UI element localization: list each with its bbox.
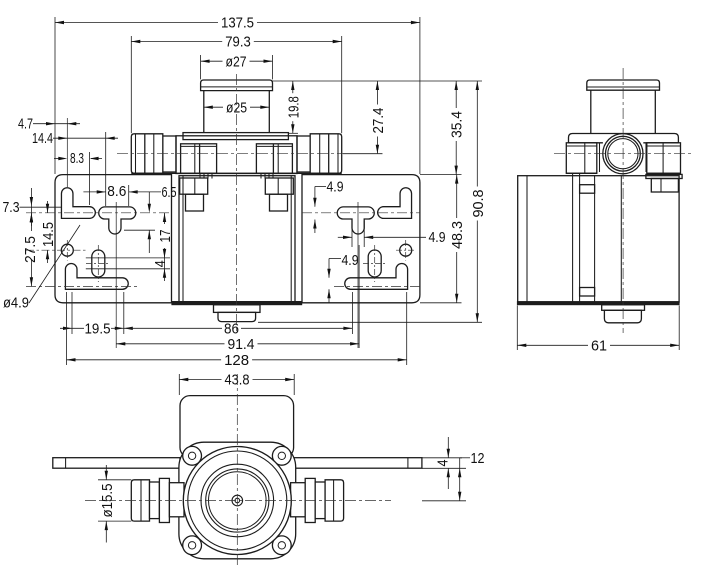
svg-text:27.4: 27.4	[370, 108, 387, 134]
right lower slot centerline	[334, 286, 420, 288]
svg-text:7.3: 7.3	[3, 199, 20, 216]
left bolt	[180, 178, 208, 211]
left lower slot centerline	[26, 286, 140, 288]
svg-text:ø4.9: ø4.9	[3, 295, 29, 312]
right hole crosslines	[396, 240, 416, 261]
dimension 91.4	[116, 245, 359, 353]
svg-text:19.8: 19.8	[285, 96, 302, 118]
dimension 8.3	[54, 150, 102, 205]
svg-text:27.5: 27.5	[22, 236, 39, 263]
dimension 8.6	[83, 183, 161, 206]
dimension 43.8	[179, 372, 294, 395]
dimension 19.5	[60, 292, 124, 338]
left hose barb	[131, 134, 163, 174]
side manifold body	[569, 134, 679, 143]
svg-text:ø27: ø27	[226, 53, 247, 70]
dimension 4 bottom	[422, 437, 466, 489]
dimension 48.3	[420, 175, 466, 303]
dimension 7.3	[3, 188, 62, 226]
svg-text:48.3: 48.3	[449, 221, 466, 249]
side center tabs	[600, 143, 647, 172]
svg-text:19.5: 19.5	[85, 321, 111, 338]
front view vertical centerline	[236, 74, 238, 331]
side manifold bottom edge	[566, 172, 680, 174]
left bracket upper L-slot	[61, 188, 95, 219]
svg-text:14.4: 14.4	[32, 130, 53, 147]
right bracket lower L-slot	[345, 263, 408, 289]
left bracket oval slot	[92, 250, 105, 277]
left oval centerlines	[86, 245, 110, 282]
motor body	[179, 176, 295, 304]
left bracket T-slot	[99, 207, 136, 234]
dimension 19.8	[285, 81, 302, 133]
dimension 86	[124, 292, 353, 338]
motor bottom cap	[214, 305, 261, 322]
left clamp block	[181, 144, 217, 174]
left hole crosslines	[26, 118, 87, 261]
side view vertical centerline	[622, 68, 624, 333]
bottom right barb	[291, 478, 344, 522]
head inner ring inner	[206, 469, 269, 532]
svg-text:12: 12	[471, 450, 485, 467]
dimension 35.4	[420, 81, 466, 175]
dimension 4.9 lower-arm	[327, 252, 358, 303]
dimension 27.5	[22, 213, 39, 286]
svg-text:35.4: 35.4	[449, 111, 466, 138]
head rim circle	[188, 451, 287, 550]
dimension 128	[67, 292, 407, 369]
svg-text:4.9: 4.9	[429, 229, 446, 246]
bottom right flange bar	[294, 458, 422, 469]
barb centerline	[117, 153, 382, 155]
svg-text:14.5: 14.5	[40, 222, 57, 247]
right oval centerlines	[363, 245, 387, 282]
right hose barb	[310, 134, 342, 174]
side motor body	[518, 173, 679, 302]
dimension o15.5	[98, 465, 131, 543]
right bracket upper L-slot	[378, 188, 412, 219]
dimension 4 front	[152, 258, 169, 281]
svg-text:4: 4	[435, 460, 452, 467]
side connector	[646, 174, 682, 192]
left bracket lower L-slot	[65, 264, 128, 290]
right bolt	[265, 178, 293, 211]
dimension 14.4	[32, 130, 118, 206]
dimension 27.4	[343, 81, 387, 154]
dimension ø25	[204, 99, 269, 116]
dimension 137.5	[55, 15, 420, 174]
svg-text:4.9: 4.9	[342, 252, 359, 269]
dimension 4.9 slot-arm	[313, 179, 343, 234]
side left clamp block	[566, 143, 597, 174]
right bracket plate	[302, 175, 420, 303]
head bore circle	[209, 472, 267, 530]
right T-stem centerline	[357, 202, 359, 348]
side view horizontal centerline	[554, 153, 694, 155]
head inner ring outer	[201, 464, 274, 537]
svg-text:6.5: 6.5	[162, 184, 177, 201]
head hub	[232, 495, 243, 506]
dimension 61	[517, 306, 679, 355]
motor base band	[172, 301, 302, 304]
dimension 4.9 stem	[338, 221, 446, 247]
manifold bottom edge	[131, 172, 341, 174]
side port tube	[591, 90, 656, 133]
svg-text:4.7: 4.7	[18, 116, 33, 133]
svg-text:91.4: 91.4	[228, 336, 255, 353]
svg-text:79.3: 79.3	[225, 34, 251, 51]
svg-text:4: 4	[152, 260, 169, 267]
pump head ear holes	[188, 452, 285, 549]
left slot centerline	[26, 212, 172, 214]
right slot centerline	[302, 212, 420, 214]
bottom left barb	[131, 478, 184, 522]
dimension 79.3	[131, 34, 341, 134]
right bracket hole	[400, 244, 412, 256]
dimension o4.9	[3, 225, 80, 312]
dimension 12	[422, 450, 485, 501]
dimension 6.5	[124, 184, 177, 253]
cap-top extension line	[273, 80, 483, 82]
front view port tube	[204, 91, 269, 133]
right clamp block	[256, 144, 292, 174]
dimension ø27	[201, 53, 273, 79]
bottom view horizontal centerline	[85, 500, 391, 502]
svg-text:61: 61	[591, 338, 607, 355]
side right clamp block	[647, 143, 681, 174]
svg-text:17: 17	[157, 230, 174, 243]
svg-text:8.3: 8.3	[70, 150, 84, 167]
side seam blocks	[580, 185, 595, 296]
svg-text:137.5: 137.5	[221, 15, 254, 32]
right bracket oval slot	[368, 250, 381, 277]
svg-text:8.6: 8.6	[107, 183, 126, 200]
bottom motor box	[180, 396, 294, 458]
bottom left flange bar	[53, 458, 180, 469]
bottom view vertical centerline	[236, 374, 238, 566]
pump head ear lobes	[183, 446, 291, 554]
svg-text:128: 128	[224, 352, 249, 369]
side barb rings	[603, 134, 643, 174]
right clamp ticks	[261, 174, 273, 179]
svg-text:4.9: 4.9	[327, 179, 344, 196]
manifold main block	[176, 136, 297, 174]
front view port cap	[201, 80, 273, 91]
side bottom cap	[602, 305, 645, 323]
left clamp ticks	[200, 174, 212, 179]
right bracket T-slot	[337, 207, 374, 234]
pump head flange plate	[179, 442, 296, 559]
dimension 17	[86, 213, 174, 269]
head main circle	[183, 447, 291, 555]
right barb neck	[297, 136, 310, 172]
side base plate	[517, 302, 679, 305]
manifold flange plate	[183, 133, 288, 140]
side port cap	[587, 80, 660, 90]
dimension 90.8	[258, 81, 487, 322]
left bracket hole	[61, 244, 73, 256]
left T-stem centerline	[115, 202, 117, 348]
left barb neck	[163, 136, 176, 172]
dimension 14.5	[40, 201, 57, 263]
svg-text:90.8: 90.8	[470, 190, 487, 218]
left bracket plate	[55, 175, 172, 303]
dimension 4.7	[18, 116, 80, 133]
